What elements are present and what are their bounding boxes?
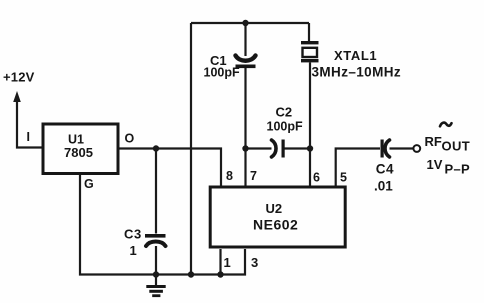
svg-text:1: 1 [130, 243, 137, 258]
svg-text:OUT: OUT [442, 139, 471, 154]
svg-text:XTAL1: XTAL1 [334, 48, 377, 63]
svg-text:1V: 1V [427, 157, 443, 172]
svg-text:100pF: 100pF [204, 66, 240, 80]
svg-text:7805: 7805 [64, 145, 93, 160]
svg-text:NE602: NE602 [253, 217, 298, 233]
svg-text:C4: C4 [376, 162, 394, 177]
svg-text:8: 8 [226, 169, 233, 183]
svg-text:.01: .01 [374, 179, 393, 194]
svg-text:+12V: +12V [3, 70, 35, 85]
svg-text:P–P: P–P [445, 162, 471, 177]
svg-text:G: G [84, 177, 94, 191]
svg-text:1: 1 [224, 255, 231, 270]
svg-text:3: 3 [251, 255, 258, 270]
svg-text:5: 5 [340, 171, 347, 185]
svg-text:100pF: 100pF [267, 120, 303, 134]
svg-text:3MHz–10MHz: 3MHz–10MHz [312, 65, 402, 80]
svg-text:C3: C3 [124, 227, 142, 242]
svg-text:U2: U2 [266, 201, 283, 216]
svg-text:O: O [125, 132, 135, 146]
svg-text:C2: C2 [276, 105, 293, 120]
svg-text:I: I [27, 130, 30, 144]
svg-text:RF: RF [425, 134, 442, 149]
svg-text:7: 7 [250, 169, 257, 183]
svg-text:6: 6 [313, 171, 320, 185]
